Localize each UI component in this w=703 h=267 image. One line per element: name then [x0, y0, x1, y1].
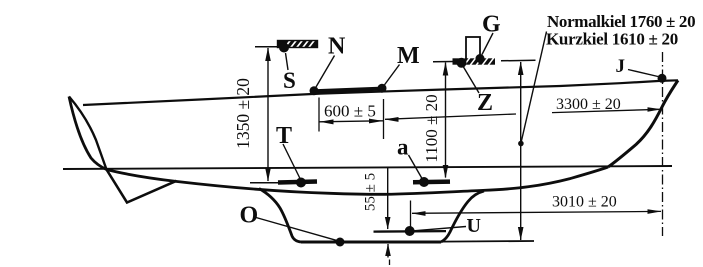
S hatched bar [278, 40, 318, 49]
dot on keel depth dimension [518, 141, 524, 147]
arrowhead 1100 down [443, 165, 449, 179]
arrowhead 1350 up [265, 48, 271, 62]
N-M measurement band [314, 89, 382, 92]
leader a [409, 155, 423, 179]
transom datum centerline (dash-dot) [662, 52, 664, 236]
arrowhead keel depth up [518, 62, 524, 76]
dim 3300 line left part [385, 114, 516, 119]
bow stem inner edge [69, 97, 107, 170]
arrowhead 3010 left [412, 211, 426, 216]
leader T [283, 144, 300, 179]
leader J [628, 70, 658, 77]
U extension line [410, 201, 412, 230]
dim 1350 line [267, 48, 269, 181]
arrowhead 55 down [385, 217, 391, 230]
keel trailing edge [441, 191, 484, 242]
point J [658, 74, 667, 83]
arrowhead 1100 up [443, 62, 449, 76]
arrowhead 3300 left [385, 117, 399, 122]
stern overhang curve [608, 80, 678, 167]
svg-text:55 ± 5: 55 ± 5 [363, 173, 379, 211]
T level extension line [250, 182, 279, 184]
keel leading edge [259, 189, 301, 243]
point a [419, 177, 429, 187]
svg-text:600 ± 5: 600 ± 5 [324, 102, 376, 121]
svg-text:1100 ± 20: 1100 ± 20 [422, 94, 441, 162]
S level extension line [255, 46, 278, 48]
arrowhead 600 left [320, 119, 334, 124]
keel bottom extension line [441, 240, 534, 243]
svg-text:S: S [283, 68, 296, 93]
svg-text:G: G [482, 12, 501, 38]
arrowhead 55 up [385, 244, 391, 257]
svg-text:Normalkiel 1760 ± 20: Normalkiel 1760 ± 20 [547, 12, 695, 31]
Kurzkiel bottom line (U level) [374, 230, 447, 233]
waterline [63, 166, 672, 169]
arrowhead keel depth down [518, 227, 524, 241]
point N [310, 86, 319, 95]
dim 3010 line [412, 211, 661, 213]
svg-text:O: O [240, 203, 259, 229]
forefoot triangle [107, 170, 177, 203]
leader U [414, 227, 467, 231]
a measurement band [413, 179, 450, 184]
leader N [316, 56, 335, 88]
dim 55 lower line [387, 244, 389, 258]
leader S [286, 53, 289, 70]
T measurement band [278, 182, 317, 183]
svg-text:J: J [616, 56, 626, 77]
G hatched bar [453, 58, 496, 66]
dim 600 line [319, 121, 384, 122]
point G [476, 54, 485, 63]
svg-text:N: N [328, 34, 346, 60]
point M [378, 84, 387, 93]
dim 1100 line [445, 63, 447, 178]
svg-text:Z: Z [477, 90, 493, 116]
svg-text:1350 ± 20: 1350 ± 20 [233, 78, 253, 149]
dim 600 right extension / M extension [383, 99, 385, 139]
dim 600 left extension [318, 98, 320, 132]
svg-text:T: T [276, 123, 292, 149]
dim 3300 line right part [552, 109, 661, 112]
sheer line [83, 80, 678, 105]
point U [405, 226, 415, 236]
point Z [457, 58, 467, 68]
arrowhead 3300 right [648, 107, 662, 112]
svg-text:M: M [397, 43, 420, 69]
canoe body bottom line [107, 167, 609, 194]
svg-text:Kurzkiel 1610 ± 20: Kurzkiel 1610 ± 20 [546, 30, 678, 49]
mast rectangle above G [466, 37, 480, 60]
leader from kiel text [521, 32, 546, 143]
leader G [482, 33, 493, 55]
arrowhead 3010 right [648, 209, 662, 214]
svg-text:3300 ± 20: 3300 ± 20 [556, 96, 621, 113]
G level line right segment [501, 59, 536, 62]
leader Z [464, 67, 480, 93]
G level line left segment [433, 61, 453, 63]
bow stem outer edge [69, 97, 107, 170]
arrowhead 1350 down [265, 168, 271, 182]
svg-text:a: a [397, 135, 409, 160]
leader M [384, 65, 400, 86]
keel depth dimension line (Normalkiel/Kurzkiel) [520, 62, 522, 240]
svg-text:U: U [467, 215, 481, 237]
tick below 55 arrow [389, 260, 391, 266]
leader O [256, 218, 338, 241]
svg-text:3010 ± 20: 3010 ± 20 [552, 194, 617, 211]
dim 55 upper line [387, 168, 389, 230]
arrowhead 600 right [369, 119, 383, 124]
keel bottom [301, 241, 441, 244]
point S [279, 43, 289, 53]
point T [296, 178, 306, 188]
point O [336, 238, 345, 247]
